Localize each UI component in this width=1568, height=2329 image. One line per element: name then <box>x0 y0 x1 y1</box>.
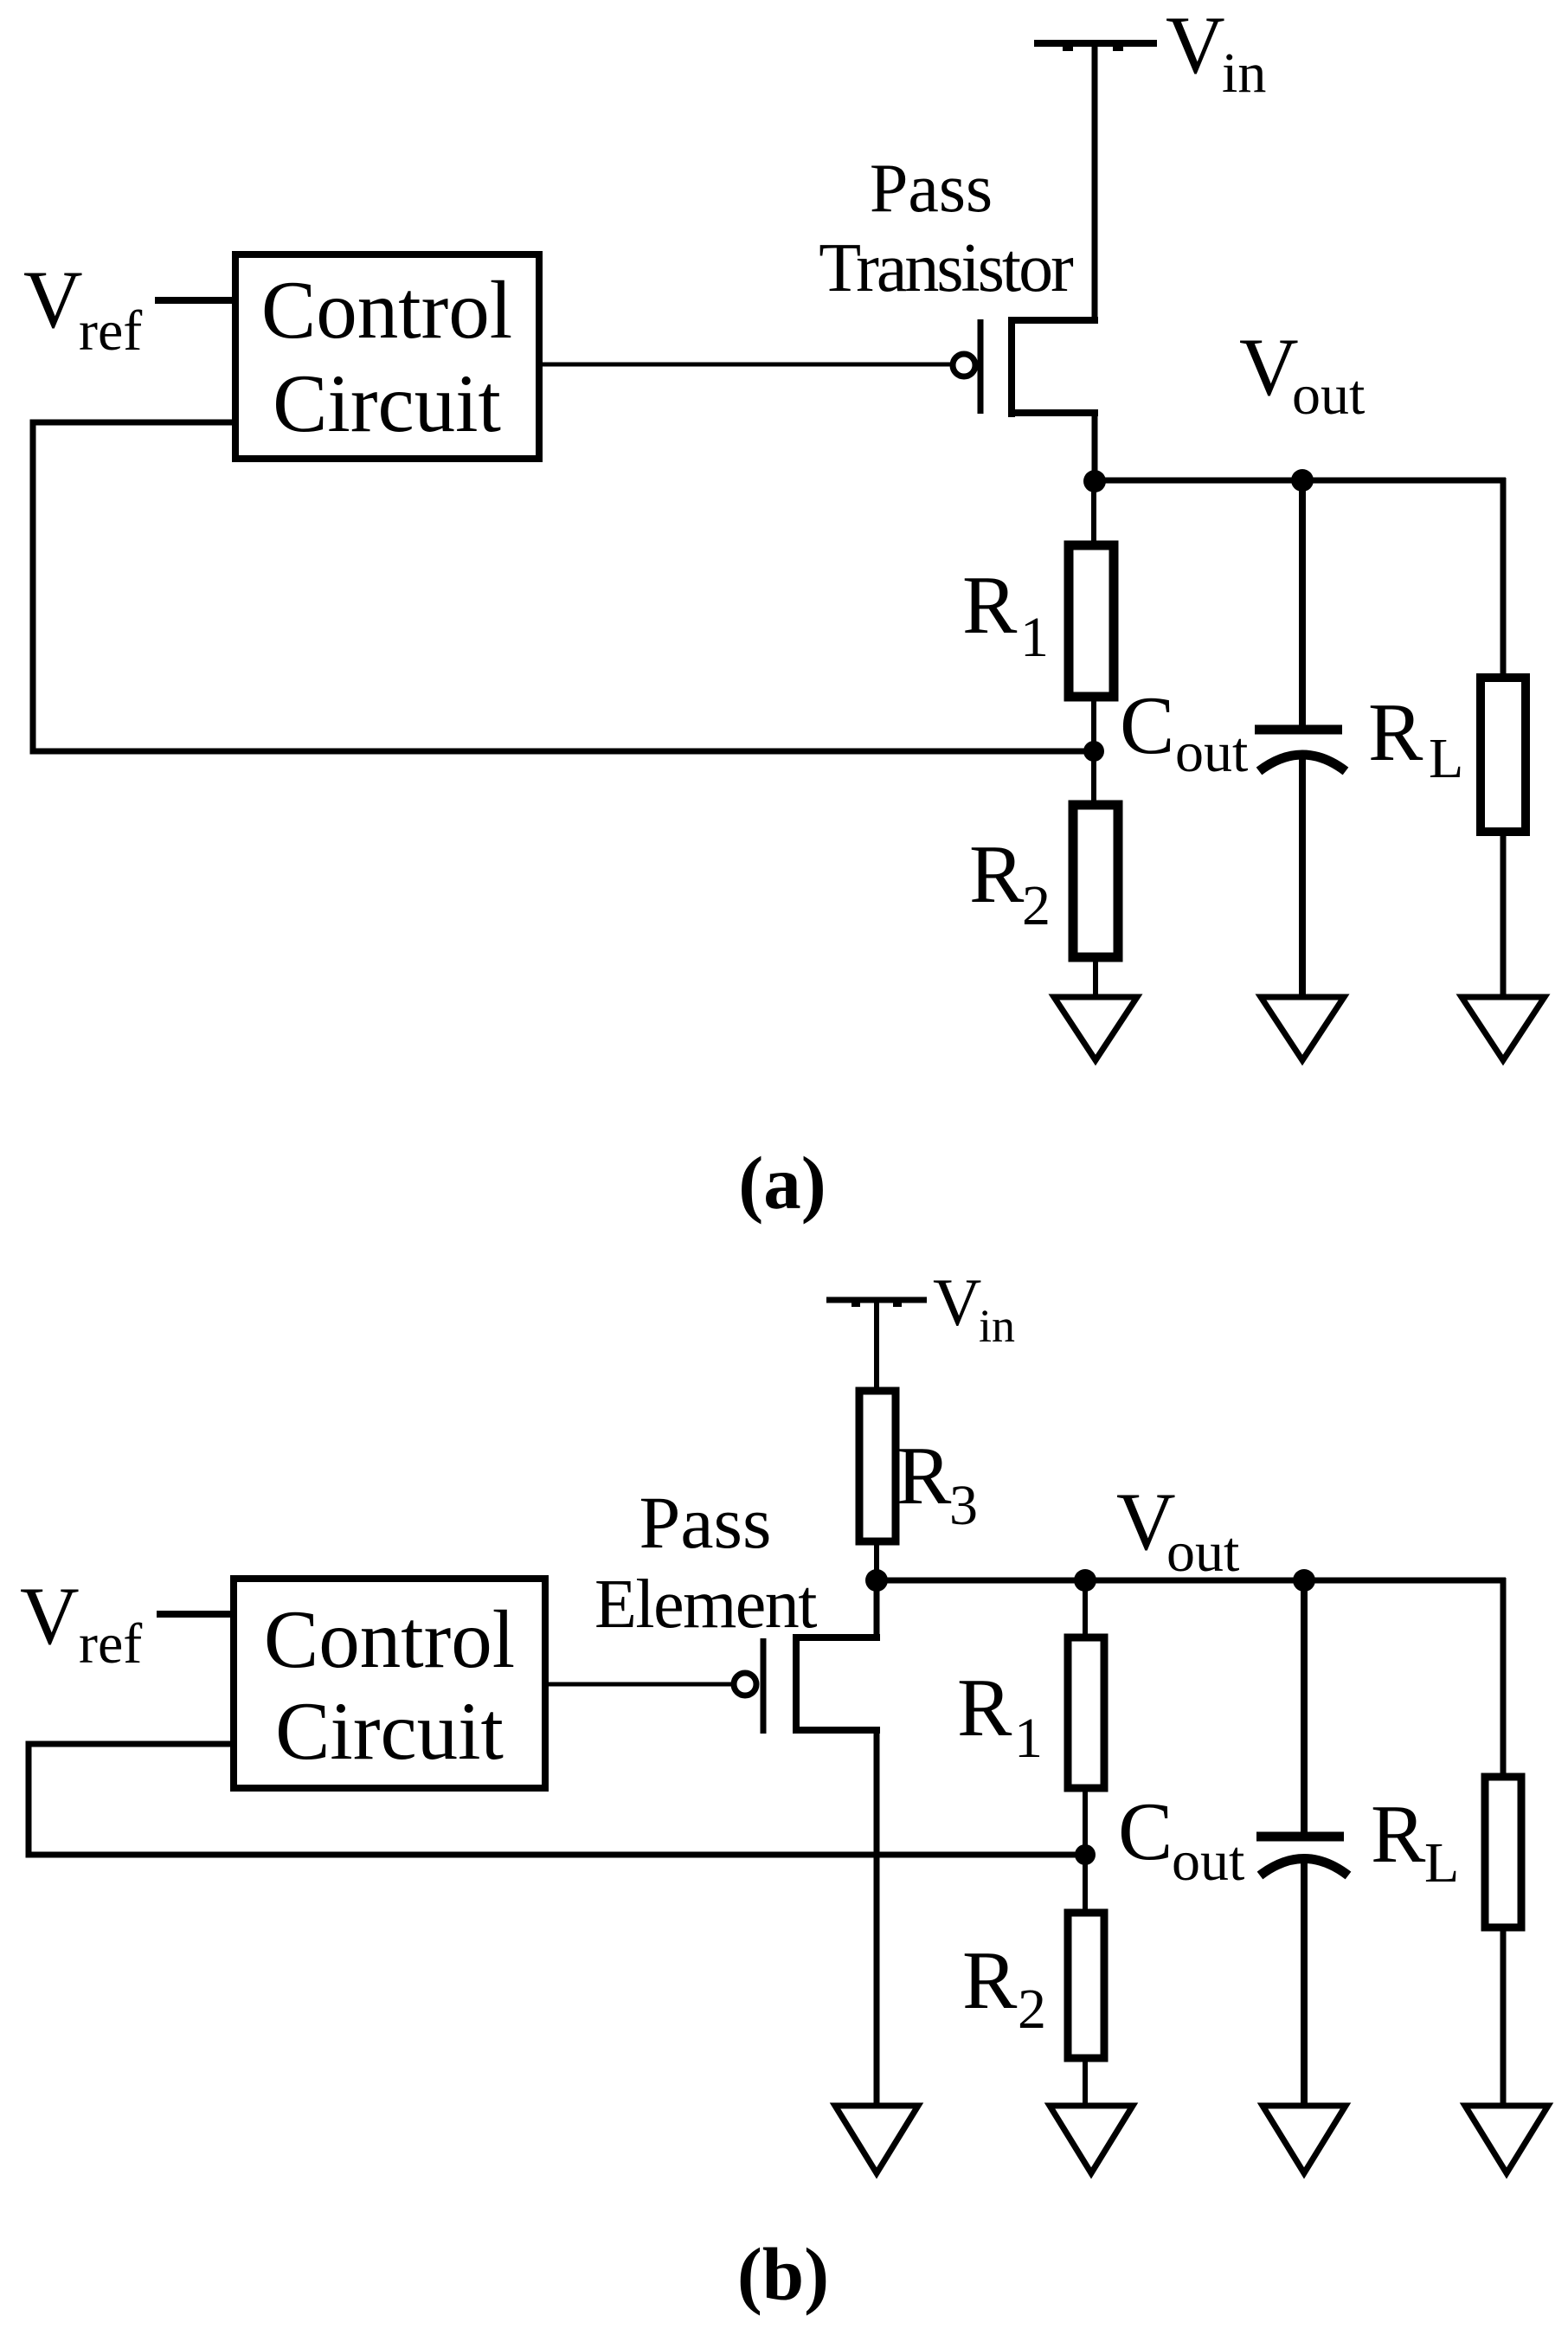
transistor Q2 channel bar (b) <box>793 1635 800 1732</box>
transistor Q1 channel bar (a) <box>1008 317 1015 417</box>
svg-text:R: R <box>1368 686 1423 778</box>
transistor Q2 source connection (b) <box>793 1634 880 1641</box>
capacitor Cout bottom plate (b) <box>1260 1859 1348 1876</box>
label Pass Transistor (a) <box>819 151 1073 306</box>
svg-text:in: in <box>1222 42 1266 105</box>
node Cout junction on rail (b) <box>1293 1569 1315 1592</box>
wire control circuit output to gate (b) <box>545 1682 732 1687</box>
resistor RL (b) <box>1485 1777 1521 1927</box>
label Vout (b) <box>1116 1476 1239 1584</box>
transistor Q2 gate bubble (b) <box>734 1673 756 1695</box>
wire R2 to ground (a) <box>1093 957 1098 1000</box>
svg-text:out: out <box>1172 1830 1244 1893</box>
wire rail corner down to RL (a) <box>1501 478 1507 678</box>
svg-text:R: R <box>962 1934 1018 2026</box>
label R1 (a) <box>962 559 1049 669</box>
wire Vref to control circuit (b) <box>157 1611 234 1618</box>
svg-text:2: 2 <box>1018 1978 1046 2041</box>
wire RL to ground (b) <box>1501 1927 1507 2108</box>
svg-text:ref: ref <box>79 1612 142 1676</box>
svg-text:2: 2 <box>1022 874 1051 937</box>
node R3 output junction (b) <box>865 1569 888 1592</box>
wire feedback node to R2 (b) <box>1083 1855 1088 1913</box>
svg-text:out: out <box>1292 364 1365 427</box>
wire control circuit output to gate (a) <box>543 363 951 367</box>
label R1 (b) <box>957 1662 1043 1770</box>
power supply Vin bar (b) <box>826 1300 927 1307</box>
wire R2 to ground (b) <box>1083 2058 1088 2108</box>
wire feedback loop (b) <box>29 1744 1085 1855</box>
wire rail node to R1 (b) <box>1083 1580 1088 1637</box>
control circuit box (a) <box>235 254 539 459</box>
node feedback junction (b) <box>1075 1844 1096 1865</box>
resistor R2 (b) <box>1068 1913 1104 2058</box>
transistor Q1 drain connection (a) <box>1008 409 1098 416</box>
wire R3 to node (b) <box>874 1541 879 1584</box>
label Vout (a) <box>1239 321 1365 427</box>
label Cout (a) <box>1120 679 1248 784</box>
svg-text:R: R <box>957 1662 1012 1753</box>
wire Vin to R3 (b) <box>874 1300 879 1391</box>
control circuit box (b) <box>234 1579 545 1788</box>
wire Cout to ground (b) <box>1301 1862 1308 2108</box>
label Cout (b) <box>1118 1785 1244 1893</box>
wire Vref to control circuit (a) <box>155 297 235 304</box>
wire RL to ground (a) <box>1501 832 1507 1000</box>
svg-text:Pass: Pass <box>639 1481 772 1564</box>
svg-text:in: in <box>979 1300 1015 1352</box>
power supply Vin bar (a) <box>1034 43 1157 51</box>
svg-text:V: V <box>20 1570 80 1662</box>
transistor Q1 source connection (a) <box>1008 317 1098 324</box>
ground under Cout (b) <box>1263 2106 1346 2173</box>
wire Cout to ground (a) <box>1299 755 1306 1000</box>
svg-text:V: V <box>23 254 83 345</box>
label Control Circuit (b) <box>264 1593 515 1777</box>
label R2 (a) <box>969 828 1051 937</box>
svg-text:Circuit: Circuit <box>275 1685 504 1777</box>
transistor Q1 gate bar (a) <box>978 319 984 414</box>
wire rail to Cout (a) <box>1299 480 1306 730</box>
ground under Cout (a) <box>1261 997 1344 1060</box>
svg-text:Pass: Pass <box>870 151 993 227</box>
capacitor Cout top plate (b) <box>1256 1832 1344 1842</box>
svg-text:Control: Control <box>264 1593 515 1685</box>
svg-text:Circuit: Circuit <box>273 357 501 449</box>
node feedback junction (a) <box>1083 741 1104 762</box>
svg-text:Element: Element <box>594 1567 817 1643</box>
svg-text:L: L <box>1429 727 1463 790</box>
label Vin (b) <box>933 1264 1015 1352</box>
transistor Q2 gate bar (b) <box>761 1638 767 1734</box>
capacitor Cout bottom plate (a) <box>1259 755 1346 771</box>
svg-text:C: C <box>1118 1785 1173 1877</box>
ground under R2 (b) <box>1050 2106 1133 2173</box>
svg-text:R: R <box>969 828 1025 920</box>
transistor Q1 gate bubble (a) <box>953 354 975 376</box>
svg-text:R: R <box>962 559 1018 651</box>
svg-text:C: C <box>1120 679 1174 771</box>
resistor R1 (b) <box>1068 1637 1104 1788</box>
label Vref (b) <box>20 1570 142 1676</box>
transistor Q2 drain connection (b) <box>793 1727 880 1734</box>
ground under pass element drain (b) <box>835 2106 918 2173</box>
svg-text:Control: Control <box>261 264 512 356</box>
label Vref (a) <box>23 254 142 363</box>
capacitor Cout top plate (a) <box>1255 725 1342 735</box>
label Control Circuit (a) <box>261 264 512 449</box>
wire node to source connection (b) <box>874 1580 880 1641</box>
svg-text:(b): (b) <box>737 2232 829 2316</box>
resistor RL (a) <box>1481 678 1526 832</box>
svg-text:(a): (a) <box>738 1141 826 1225</box>
wire rail corner down to RL (b) <box>1501 1578 1507 1777</box>
wire Vout rail (b) <box>877 1578 1506 1584</box>
resistor R2 (a) <box>1073 805 1118 957</box>
wire R1 to feedback node and on to R2 (a) <box>1091 697 1096 805</box>
label R2 (b) <box>962 1934 1046 2041</box>
node Cout junction on rail (a) <box>1291 469 1314 492</box>
svg-text:out: out <box>1166 1521 1239 1584</box>
svg-text:V: V <box>933 1264 981 1340</box>
resistor R1 (a) <box>1069 545 1114 697</box>
svg-text:ref: ref <box>79 299 142 363</box>
wire R1 to feedback node (b) <box>1083 1788 1088 1855</box>
wire Vout rail (a) <box>1095 478 1506 484</box>
wire node to R1 (a) <box>1091 481 1096 545</box>
svg-text:V: V <box>1166 0 1225 91</box>
label R3 (b) <box>896 1430 978 1537</box>
svg-text:L: L <box>1424 1831 1459 1895</box>
wire feedback loop (a) <box>33 422 1094 751</box>
ground under R2 (a) <box>1054 997 1137 1060</box>
label Vin (a) <box>1166 0 1266 105</box>
label Pass Element (b) <box>594 1481 817 1643</box>
label RL (b) <box>1371 1788 1459 1895</box>
svg-text:Transistor: Transistor <box>819 230 1073 306</box>
wire rail to Cout (b) <box>1301 1580 1308 1837</box>
svg-text:1: 1 <box>1014 1707 1043 1770</box>
svg-text:1: 1 <box>1020 606 1049 669</box>
wire drain to Vout node (a) <box>1092 413 1098 485</box>
resistor R3 (b) <box>859 1391 896 1541</box>
node R1 junction on rail (b) <box>1074 1569 1096 1592</box>
svg-text:R: R <box>1371 1788 1426 1880</box>
svg-text:R: R <box>896 1430 952 1522</box>
svg-text:out: out <box>1175 721 1248 784</box>
node Vout junction (a) <box>1083 470 1106 492</box>
wire Vin to pass transistor source (a) <box>1092 43 1098 324</box>
ground under RL (b) <box>1465 2106 1548 2173</box>
svg-text:V: V <box>1239 321 1299 413</box>
ground under RL (a) <box>1462 997 1545 1060</box>
svg-text:3: 3 <box>949 1474 978 1537</box>
label RL (a) <box>1368 686 1463 790</box>
wire drain down to ground (b) <box>874 1727 880 2108</box>
